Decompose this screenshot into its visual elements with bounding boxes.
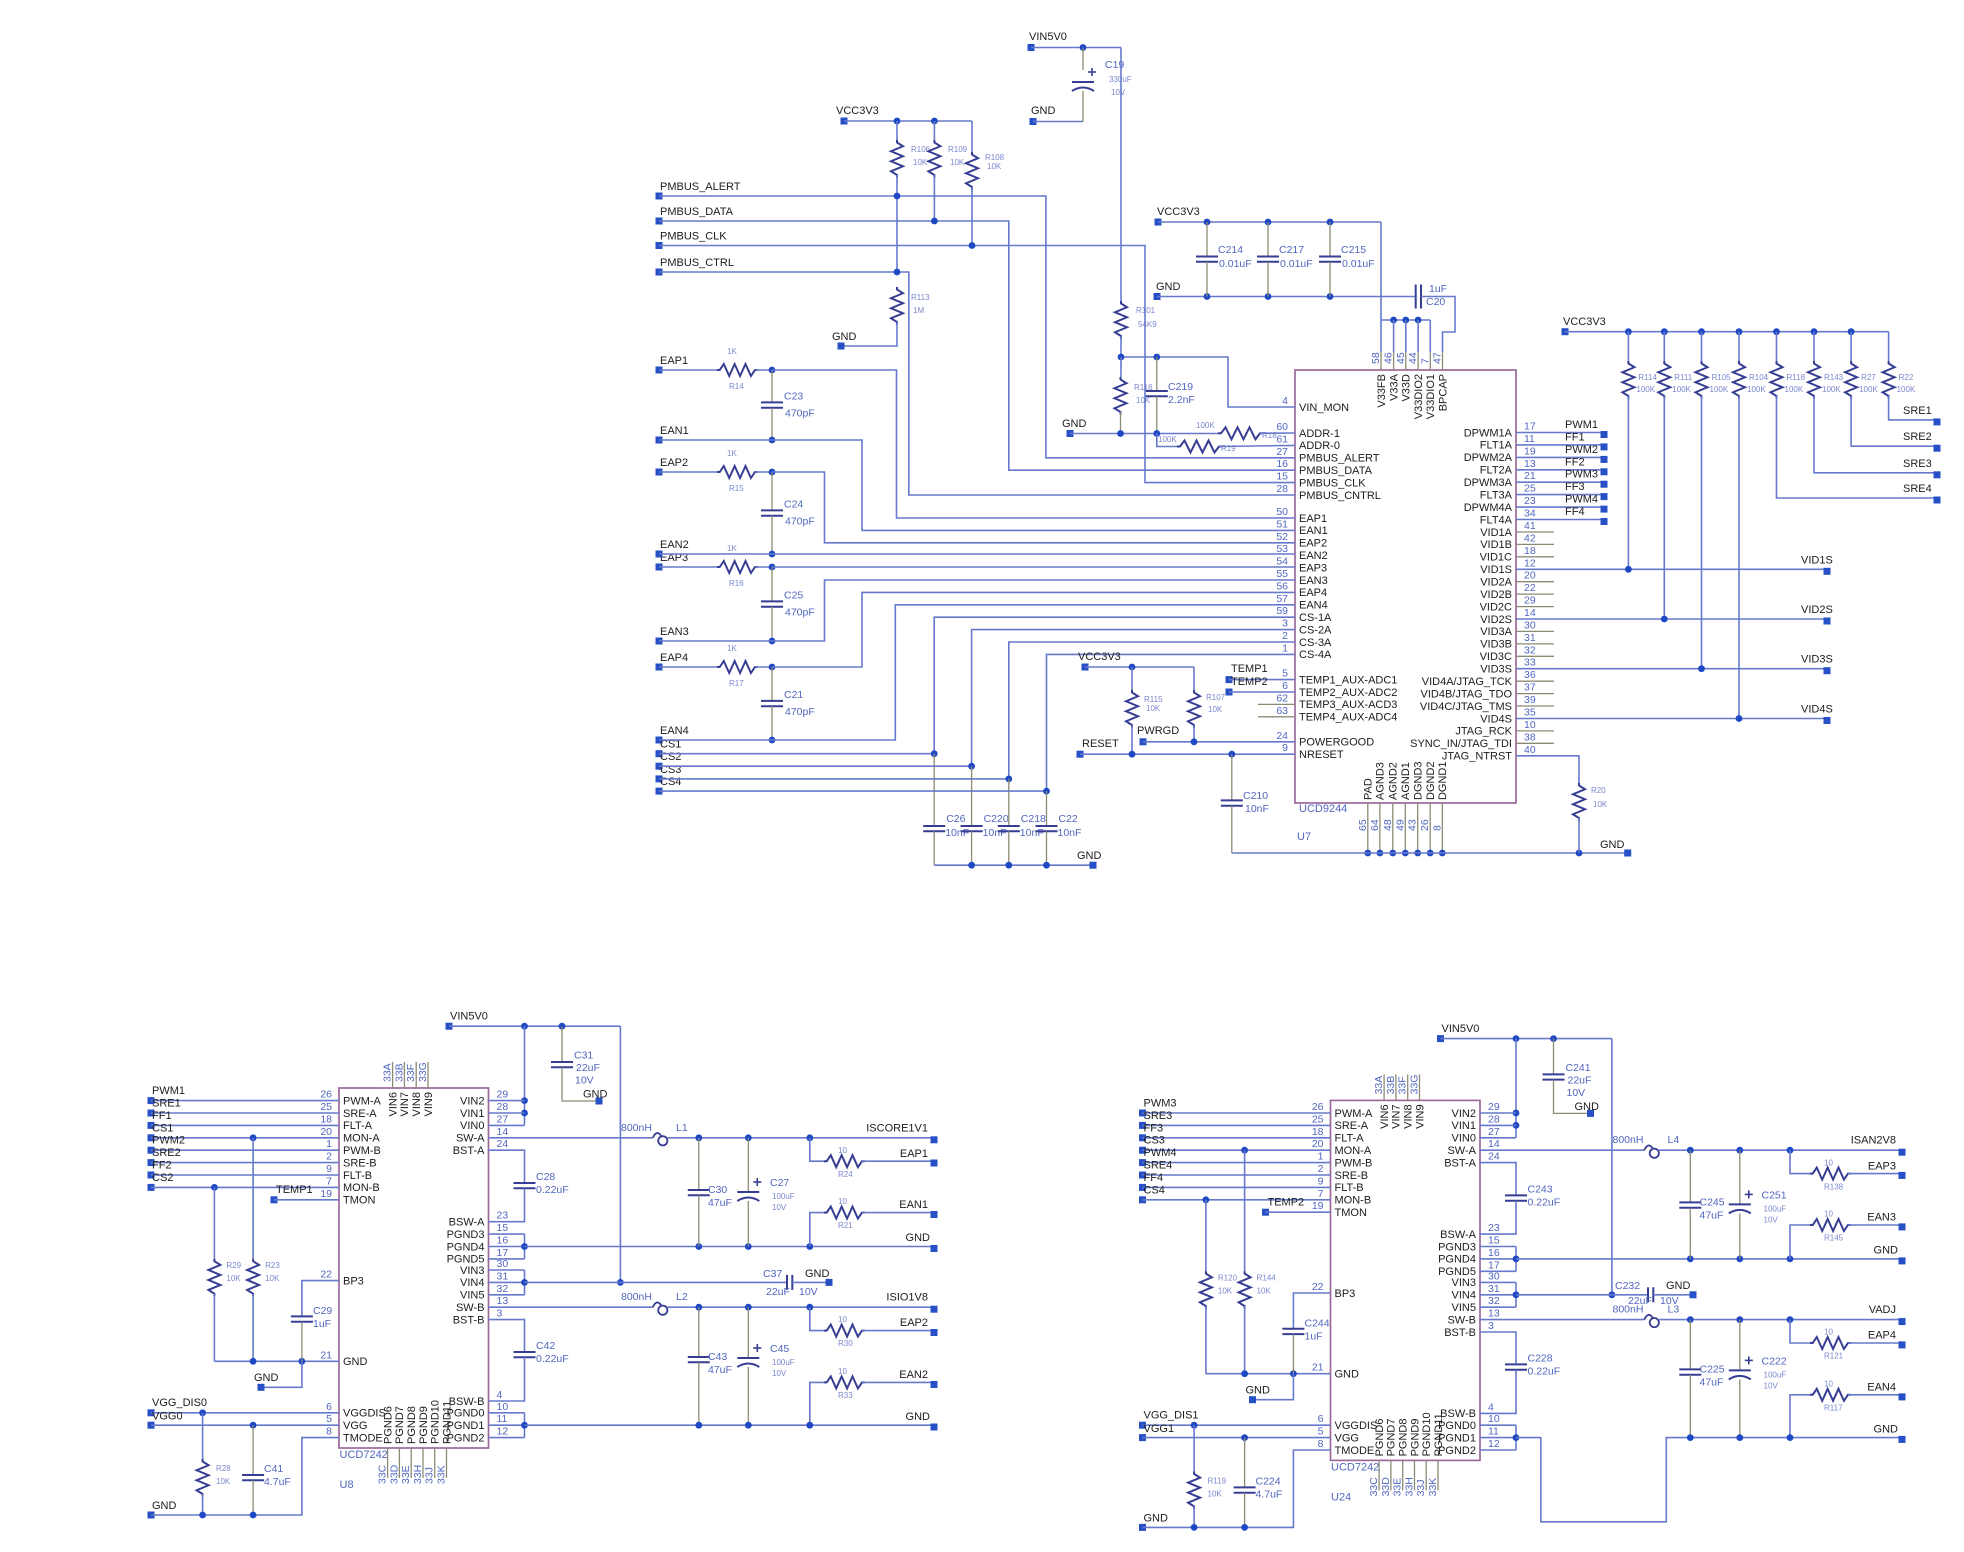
svg-text:EAN4: EAN4 [1867,1381,1896,1393]
svg-text:33G: 33G [417,1062,429,1082]
svg-text:C210: C210 [1243,790,1268,802]
svg-text:33D: 33D [1380,1477,1392,1497]
svg-text:PGND9: PGND9 [1409,1418,1421,1456]
svg-text:10nF: 10nF [983,827,1007,839]
svg-text:PMBUS_CNTRL: PMBUS_CNTRL [1299,490,1381,502]
svg-text:10K: 10K [950,158,965,167]
svg-text:58: 58 [1370,352,1382,364]
svg-text:33K: 33K [1427,1478,1439,1497]
svg-text:R16: R16 [729,579,744,588]
svg-text:37: 37 [1524,682,1536,694]
svg-text:VIN8: VIN8 [1403,1104,1415,1128]
svg-text:23: 23 [1524,495,1536,507]
svg-text:R118: R118 [1787,373,1806,382]
svg-text:43: 43 [1407,819,1419,831]
svg-text:FLT2A: FLT2A [1480,465,1513,477]
svg-text:10: 10 [497,1401,509,1413]
svg-text:0.22uF: 0.22uF [536,1353,569,1365]
svg-text:VGG: VGG [1335,1432,1359,1444]
svg-text:30: 30 [1488,1270,1500,1282]
svg-text:28: 28 [1488,1113,1500,1125]
svg-text:TEMP4_AUX-ADC4: TEMP4_AUX-ADC4 [1299,712,1397,724]
svg-text:UCD7242: UCD7242 [1331,1461,1379,1473]
svg-text:R113: R113 [911,293,930,302]
svg-text:10nF: 10nF [1058,827,1082,839]
svg-text:FLT1A: FLT1A [1480,440,1513,452]
svg-text:12: 12 [497,1426,509,1438]
svg-text:L1: L1 [676,1122,688,1134]
svg-text:16: 16 [1488,1247,1500,1259]
svg-text:24: 24 [497,1138,509,1150]
svg-text:100K: 100K [1859,385,1878,394]
svg-text:GND: GND [1077,850,1102,862]
svg-text:CS-3A: CS-3A [1299,637,1332,649]
svg-text:28: 28 [497,1101,509,1113]
svg-text:33B: 33B [1385,1076,1397,1095]
svg-text:VIN9: VIN9 [1414,1104,1426,1128]
svg-text:SRE-B: SRE-B [343,1157,377,1169]
svg-text:33H: 33H [412,1465,424,1484]
svg-text:MON-A: MON-A [1335,1145,1372,1157]
svg-text:C214: C214 [1218,244,1243,256]
svg-text:1: 1 [326,1138,332,1150]
svg-text:10V: 10V [1567,1087,1586,1099]
svg-text:GND: GND [1666,1280,1691,1292]
svg-text:VIN9: VIN9 [423,1092,435,1116]
svg-text:L3: L3 [1668,1304,1680,1316]
svg-text:C217: C217 [1279,244,1304,256]
svg-text:GND: GND [1062,418,1087,430]
svg-text:52: 52 [1276,531,1288,543]
svg-text:TEMP2: TEMP2 [1268,1196,1305,1208]
svg-text:FF1: FF1 [1565,431,1585,443]
svg-text:V33A: V33A [1388,373,1400,401]
svg-text:470pF: 470pF [785,606,815,618]
svg-text:VIN7: VIN7 [399,1092,411,1116]
svg-text:FF3: FF3 [1565,481,1585,493]
svg-text:9: 9 [1318,1175,1324,1187]
svg-text:10: 10 [838,1367,847,1376]
svg-text:16: 16 [497,1235,509,1247]
svg-text:PGND11: PGND11 [1433,1413,1445,1456]
svg-text:R104: R104 [1749,373,1769,382]
svg-text:47: 47 [1432,352,1444,364]
svg-text:33C: 33C [377,1464,389,1484]
svg-text:PGND10: PGND10 [1421,1412,1433,1456]
svg-text:U7: U7 [1297,831,1311,843]
svg-text:R119: R119 [1208,1476,1227,1485]
svg-text:VID2S: VID2S [1480,614,1512,626]
svg-text:TMON: TMON [1335,1207,1367,1219]
svg-text:4: 4 [497,1389,503,1401]
svg-text:800nH: 800nH [621,1122,652,1134]
svg-text:11: 11 [1488,1426,1499,1438]
svg-text:VIN_MON: VIN_MON [1299,402,1349,414]
svg-text:470pF: 470pF [785,515,815,527]
svg-text:1uF: 1uF [1305,1330,1323,1342]
svg-text:R23: R23 [265,1261,280,1270]
svg-text:25: 25 [320,1101,332,1113]
svg-text:VIN5: VIN5 [1452,1302,1476,1314]
svg-text:100K: 100K [1196,421,1215,430]
svg-text:30: 30 [1524,619,1536,631]
svg-text:U24: U24 [1331,1491,1351,1503]
svg-text:10K: 10K [1593,800,1608,809]
svg-text:POWERGOOD: POWERGOOD [1299,737,1374,749]
svg-text:51: 51 [1276,518,1288,530]
svg-text:470pF: 470pF [785,706,815,718]
svg-text:24: 24 [1276,730,1288,742]
svg-text:EAN3: EAN3 [660,626,689,638]
svg-text:3: 3 [1488,1320,1494,1332]
svg-text:SYNC_IN/JTAG_TDI: SYNC_IN/JTAG_TDI [1410,738,1512,750]
svg-text:65: 65 [1357,819,1369,831]
svg-text:SW-A: SW-A [456,1133,485,1145]
svg-text:GND: GND [254,1372,279,1384]
svg-text:TEMP3_AUX-ACD3: TEMP3_AUX-ACD3 [1299,699,1397,711]
svg-text:13: 13 [1524,458,1536,470]
svg-text:PWM3: PWM3 [1565,469,1598,481]
svg-text:PGND10: PGND10 [430,1400,442,1444]
svg-text:33B: 33B [393,1063,405,1082]
svg-text:PWM4: PWM4 [1565,494,1598,506]
svg-text:12: 12 [1524,557,1536,569]
svg-text:25: 25 [1312,1113,1324,1125]
svg-text:24: 24 [1488,1151,1500,1163]
svg-text:10K: 10K [1208,705,1223,714]
svg-text:PGND4: PGND4 [447,1241,485,1253]
svg-text:SRE2: SRE2 [1903,431,1932,443]
svg-text:30: 30 [497,1258,509,1270]
svg-text:0.01uF: 0.01uF [1342,258,1375,270]
svg-text:10nF: 10nF [1020,827,1044,839]
svg-text:39: 39 [1524,694,1536,706]
svg-text:VID2C: VID2C [1480,601,1512,613]
svg-text:VIN2: VIN2 [1452,1108,1476,1120]
svg-text:PWM-A: PWM-A [1335,1108,1374,1120]
svg-text:EAN1: EAN1 [660,425,689,437]
svg-text:ISIO1V8: ISIO1V8 [886,1292,928,1304]
svg-text:C25: C25 [784,589,803,601]
svg-text:R107: R107 [1206,693,1226,702]
svg-text:R120: R120 [1218,1273,1238,1282]
svg-text:BST-A: BST-A [453,1145,485,1157]
svg-text:VIN4: VIN4 [1452,1290,1476,1302]
svg-text:42: 42 [1524,532,1536,544]
svg-text:32: 32 [1524,644,1536,656]
svg-text:R121: R121 [1824,1351,1844,1360]
svg-text:TMODE: TMODE [343,1432,383,1444]
svg-text:26: 26 [320,1089,332,1101]
svg-text:PWM2: PWM2 [152,1135,185,1147]
svg-text:R27: R27 [1861,373,1876,382]
svg-text:SRE-A: SRE-A [343,1108,377,1120]
svg-text:TEMP1_AUX-ADC1: TEMP1_AUX-ADC1 [1299,674,1397,686]
svg-text:7: 7 [1419,358,1431,364]
svg-text:BSW-B: BSW-B [1440,1408,1476,1420]
svg-text:GND: GND [1144,1512,1169,1524]
svg-text:10V: 10V [772,1369,787,1378]
svg-text:33A: 33A [1373,1076,1385,1095]
svg-text:VIN0: VIN0 [1452,1133,1476,1145]
svg-text:R114: R114 [1638,373,1657,382]
svg-text:VGG1: VGG1 [1144,1423,1175,1435]
svg-text:10V: 10V [1764,1381,1779,1390]
svg-text:4.7uF: 4.7uF [264,1476,291,1488]
svg-text:33F: 33F [405,1064,417,1082]
svg-text:100uF: 100uF [772,1192,795,1201]
svg-text:C26: C26 [946,813,965,825]
svg-text:33D: 33D [388,1464,400,1484]
svg-text:10K: 10K [1146,704,1161,713]
svg-text:BSW-A: BSW-A [449,1217,486,1229]
svg-text:GND: GND [1031,105,1056,117]
svg-text:PGND3: PGND3 [1438,1241,1476,1253]
svg-text:GND: GND [906,1232,931,1244]
svg-text:VIN8: VIN8 [411,1092,423,1116]
svg-text:23: 23 [497,1210,509,1222]
svg-text:FF4: FF4 [1144,1172,1164,1184]
svg-text:TEMP2: TEMP2 [1231,676,1268,688]
svg-text:7: 7 [326,1175,332,1187]
svg-text:0.01uF: 0.01uF [1280,258,1313,270]
svg-text:VADJ: VADJ [1869,1304,1896,1316]
svg-text:18: 18 [1312,1126,1324,1138]
svg-text:DGND2: DGND2 [1425,761,1437,800]
svg-text:0.22uF: 0.22uF [1528,1365,1561,1377]
svg-text:SRE4: SRE4 [1144,1160,1173,1172]
svg-text:EAN1: EAN1 [899,1199,928,1211]
svg-text:VIN1: VIN1 [460,1108,484,1120]
svg-text:U8: U8 [340,1479,354,1491]
svg-text:100K: 100K [1710,385,1729,394]
svg-text:0.22uF: 0.22uF [1528,1196,1561,1208]
svg-text:VGG_DIS0: VGG_DIS0 [152,1397,207,1409]
svg-text:10: 10 [1824,1379,1833,1388]
svg-text:R106: R106 [911,145,931,154]
svg-text:100K: 100K [1822,385,1841,394]
svg-text:MON-B: MON-B [1335,1195,1372,1207]
svg-text:2.2nF: 2.2nF [1168,394,1195,406]
svg-text:12: 12 [1488,1438,1500,1450]
svg-text:TEMP1: TEMP1 [276,1184,313,1196]
svg-text:MON-A: MON-A [343,1133,380,1145]
svg-text:SRE-A: SRE-A [1335,1120,1369,1132]
svg-text:59: 59 [1276,605,1288,617]
svg-text:VGGDIS: VGGDIS [1335,1420,1378,1432]
svg-text:EAN4: EAN4 [660,725,689,737]
svg-text:20: 20 [1524,570,1536,582]
svg-text:C20: C20 [1426,296,1445,308]
svg-text:15: 15 [1488,1235,1500,1247]
svg-text:PWM2: PWM2 [1565,444,1598,456]
svg-text:100uF: 100uF [772,1358,795,1367]
svg-text:5: 5 [1282,668,1288,680]
svg-text:VIN5: VIN5 [460,1290,484,1302]
svg-text:CS4: CS4 [660,776,681,788]
svg-text:4.7uF: 4.7uF [1256,1488,1283,1500]
svg-text:PGND7: PGND7 [394,1406,406,1444]
svg-text:2: 2 [326,1151,332,1163]
svg-text:PGND11: PGND11 [441,1401,453,1444]
svg-text:6: 6 [326,1401,332,1413]
svg-text:47uF: 47uF [708,1364,732,1376]
svg-text:1K: 1K [727,347,737,356]
svg-text:49: 49 [1394,819,1406,831]
svg-text:GND: GND [906,1411,931,1423]
svg-text:20: 20 [1312,1138,1324,1150]
svg-text:100uF: 100uF [1764,1204,1787,1213]
svg-text:5: 5 [326,1413,332,1425]
svg-text:R109: R109 [948,145,968,154]
svg-text:SRE3: SRE3 [1903,458,1932,470]
svg-text:27: 27 [1488,1126,1500,1138]
svg-text:10nF: 10nF [945,827,969,839]
svg-text:EAP2: EAP2 [660,457,688,469]
svg-text:33A: 33A [382,1063,394,1082]
svg-text:1: 1 [1318,1151,1324,1163]
svg-text:27: 27 [497,1113,509,1125]
svg-text:VID1S: VID1S [1801,554,1833,566]
svg-text:VGGDIS: VGGDIS [343,1408,386,1420]
svg-text:54: 54 [1276,556,1288,568]
svg-text:CS3: CS3 [1144,1135,1165,1147]
svg-text:R21: R21 [838,1221,853,1230]
svg-text:PGND3: PGND3 [447,1229,485,1241]
svg-text:8: 8 [1318,1438,1324,1450]
svg-text:BST-A: BST-A [1444,1157,1476,1169]
svg-text:UCD9244: UCD9244 [1299,803,1347,815]
svg-text:DPWM2A: DPWM2A [1464,452,1513,464]
svg-text:VIN0: VIN0 [460,1120,484,1132]
svg-text:10K: 10K [1208,1489,1223,1498]
svg-text:V33D: V33D [1401,374,1413,402]
svg-text:VIN4: VIN4 [460,1277,484,1289]
svg-text:14: 14 [497,1126,509,1138]
svg-text:FLT-A: FLT-A [343,1120,373,1132]
svg-text:38: 38 [1524,731,1536,743]
svg-text:6: 6 [1318,1413,1324,1425]
svg-text:FLT-B: FLT-B [343,1170,372,1182]
svg-text:PMBUS_ALERT: PMBUS_ALERT [1299,453,1380,465]
svg-text:R20: R20 [1591,786,1606,795]
svg-text:C232: C232 [1615,1280,1640,1292]
svg-text:GND: GND [583,1089,608,1101]
svg-text:EAP2: EAP2 [1299,538,1327,550]
svg-text:EAP1: EAP1 [900,1148,928,1160]
svg-text:33E: 33E [400,1465,412,1484]
svg-text:10: 10 [1524,719,1536,731]
svg-text:100K: 100K [1897,385,1916,394]
svg-text:R17: R17 [729,679,744,688]
svg-text:10V: 10V [1764,1215,1779,1224]
svg-text:V33DIO1: V33DIO1 [1425,374,1437,419]
svg-text:R101: R101 [1136,306,1156,315]
svg-text:TEMP2_AUX-ADC2: TEMP2_AUX-ADC2 [1299,687,1397,699]
svg-text:33H: 33H [1404,1477,1416,1496]
svg-text:45: 45 [1395,352,1407,364]
svg-text:19: 19 [1312,1200,1324,1212]
svg-text:C23: C23 [784,390,803,402]
svg-text:22uF: 22uF [576,1062,600,1074]
svg-text:5: 5 [1318,1426,1324,1438]
svg-text:33J: 33J [1415,1479,1427,1496]
svg-text:22uF: 22uF [766,1286,790,1298]
svg-text:BP3: BP3 [343,1275,364,1287]
svg-text:ISCORE1V1: ISCORE1V1 [866,1122,928,1134]
svg-text:GND: GND [1156,281,1181,293]
svg-text:VID1S: VID1S [1480,564,1512,576]
svg-text:0.22uF: 0.22uF [536,1184,569,1196]
svg-text:62: 62 [1276,692,1288,704]
svg-text:VID4C/JTAG_TMS: VID4C/JTAG_TMS [1420,701,1512,713]
svg-text:C251: C251 [1762,1189,1787,1201]
svg-text:TMODE: TMODE [1335,1445,1375,1457]
svg-text:26: 26 [1419,819,1431,831]
svg-text:AGND2: AGND2 [1388,762,1400,800]
svg-text:R138: R138 [1824,1182,1844,1191]
svg-text:PAD: PAD [1363,778,1375,800]
svg-text:32: 32 [1488,1295,1500,1307]
svg-text:VIN6: VIN6 [387,1092,399,1116]
svg-text:C31: C31 [574,1050,593,1062]
svg-text:23: 23 [1488,1222,1500,1234]
svg-text:9: 9 [1282,742,1288,754]
svg-text:R105: R105 [1712,373,1732,382]
svg-text:33F: 33F [1397,1076,1409,1094]
svg-text:R115: R115 [1144,695,1163,704]
svg-text:FLT-A: FLT-A [1335,1133,1365,1145]
svg-text:10K: 10K [216,1477,231,1486]
svg-text:32: 32 [497,1283,509,1295]
svg-text:EAP1: EAP1 [1299,513,1327,525]
svg-text:10V: 10V [575,1075,594,1087]
svg-text:19: 19 [320,1188,332,1200]
svg-text:CS1: CS1 [152,1122,173,1134]
svg-text:10K: 10K [226,1274,241,1283]
svg-text:BSW-A: BSW-A [1440,1229,1477,1241]
svg-text:11: 11 [497,1413,508,1425]
svg-text:22uF: 22uF [1568,1074,1592,1086]
svg-text:PWM4: PWM4 [1144,1147,1177,1159]
svg-text:C219: C219 [1168,381,1193,393]
svg-text:RESET: RESET [1082,738,1119,750]
svg-text:8: 8 [1431,825,1443,831]
svg-text:C28: C28 [536,1171,555,1183]
svg-text:1K: 1K [727,449,737,458]
svg-text:14: 14 [1488,1138,1500,1150]
svg-text:GND: GND [152,1500,177,1512]
svg-text:800nH: 800nH [621,1291,652,1303]
svg-text:C24: C24 [784,498,803,510]
svg-text:PWRGD: PWRGD [1137,725,1179,737]
svg-text:PGND9: PGND9 [418,1406,430,1444]
svg-text:0.01uF: 0.01uF [1219,258,1252,270]
svg-text:27: 27 [1276,446,1288,458]
svg-text:BSW-B: BSW-B [449,1396,485,1408]
svg-text:C30: C30 [708,1184,727,1196]
svg-text:VID1C: VID1C [1480,552,1512,564]
svg-text:29: 29 [497,1089,509,1101]
svg-text:JTAG_NTRST: JTAG_NTRST [1442,751,1512,763]
svg-text:JTAG_RCK: JTAG_RCK [1455,726,1512,738]
svg-text:100uF: 100uF [1764,1370,1787,1379]
svg-text:800nH: 800nH [1613,1134,1644,1146]
svg-text:34: 34 [1524,508,1536,520]
svg-text:VID2A: VID2A [1480,577,1512,589]
svg-text:VID4B/JTAG_TDO: VID4B/JTAG_TDO [1421,688,1513,700]
svg-text:100K: 100K [1672,385,1691,394]
